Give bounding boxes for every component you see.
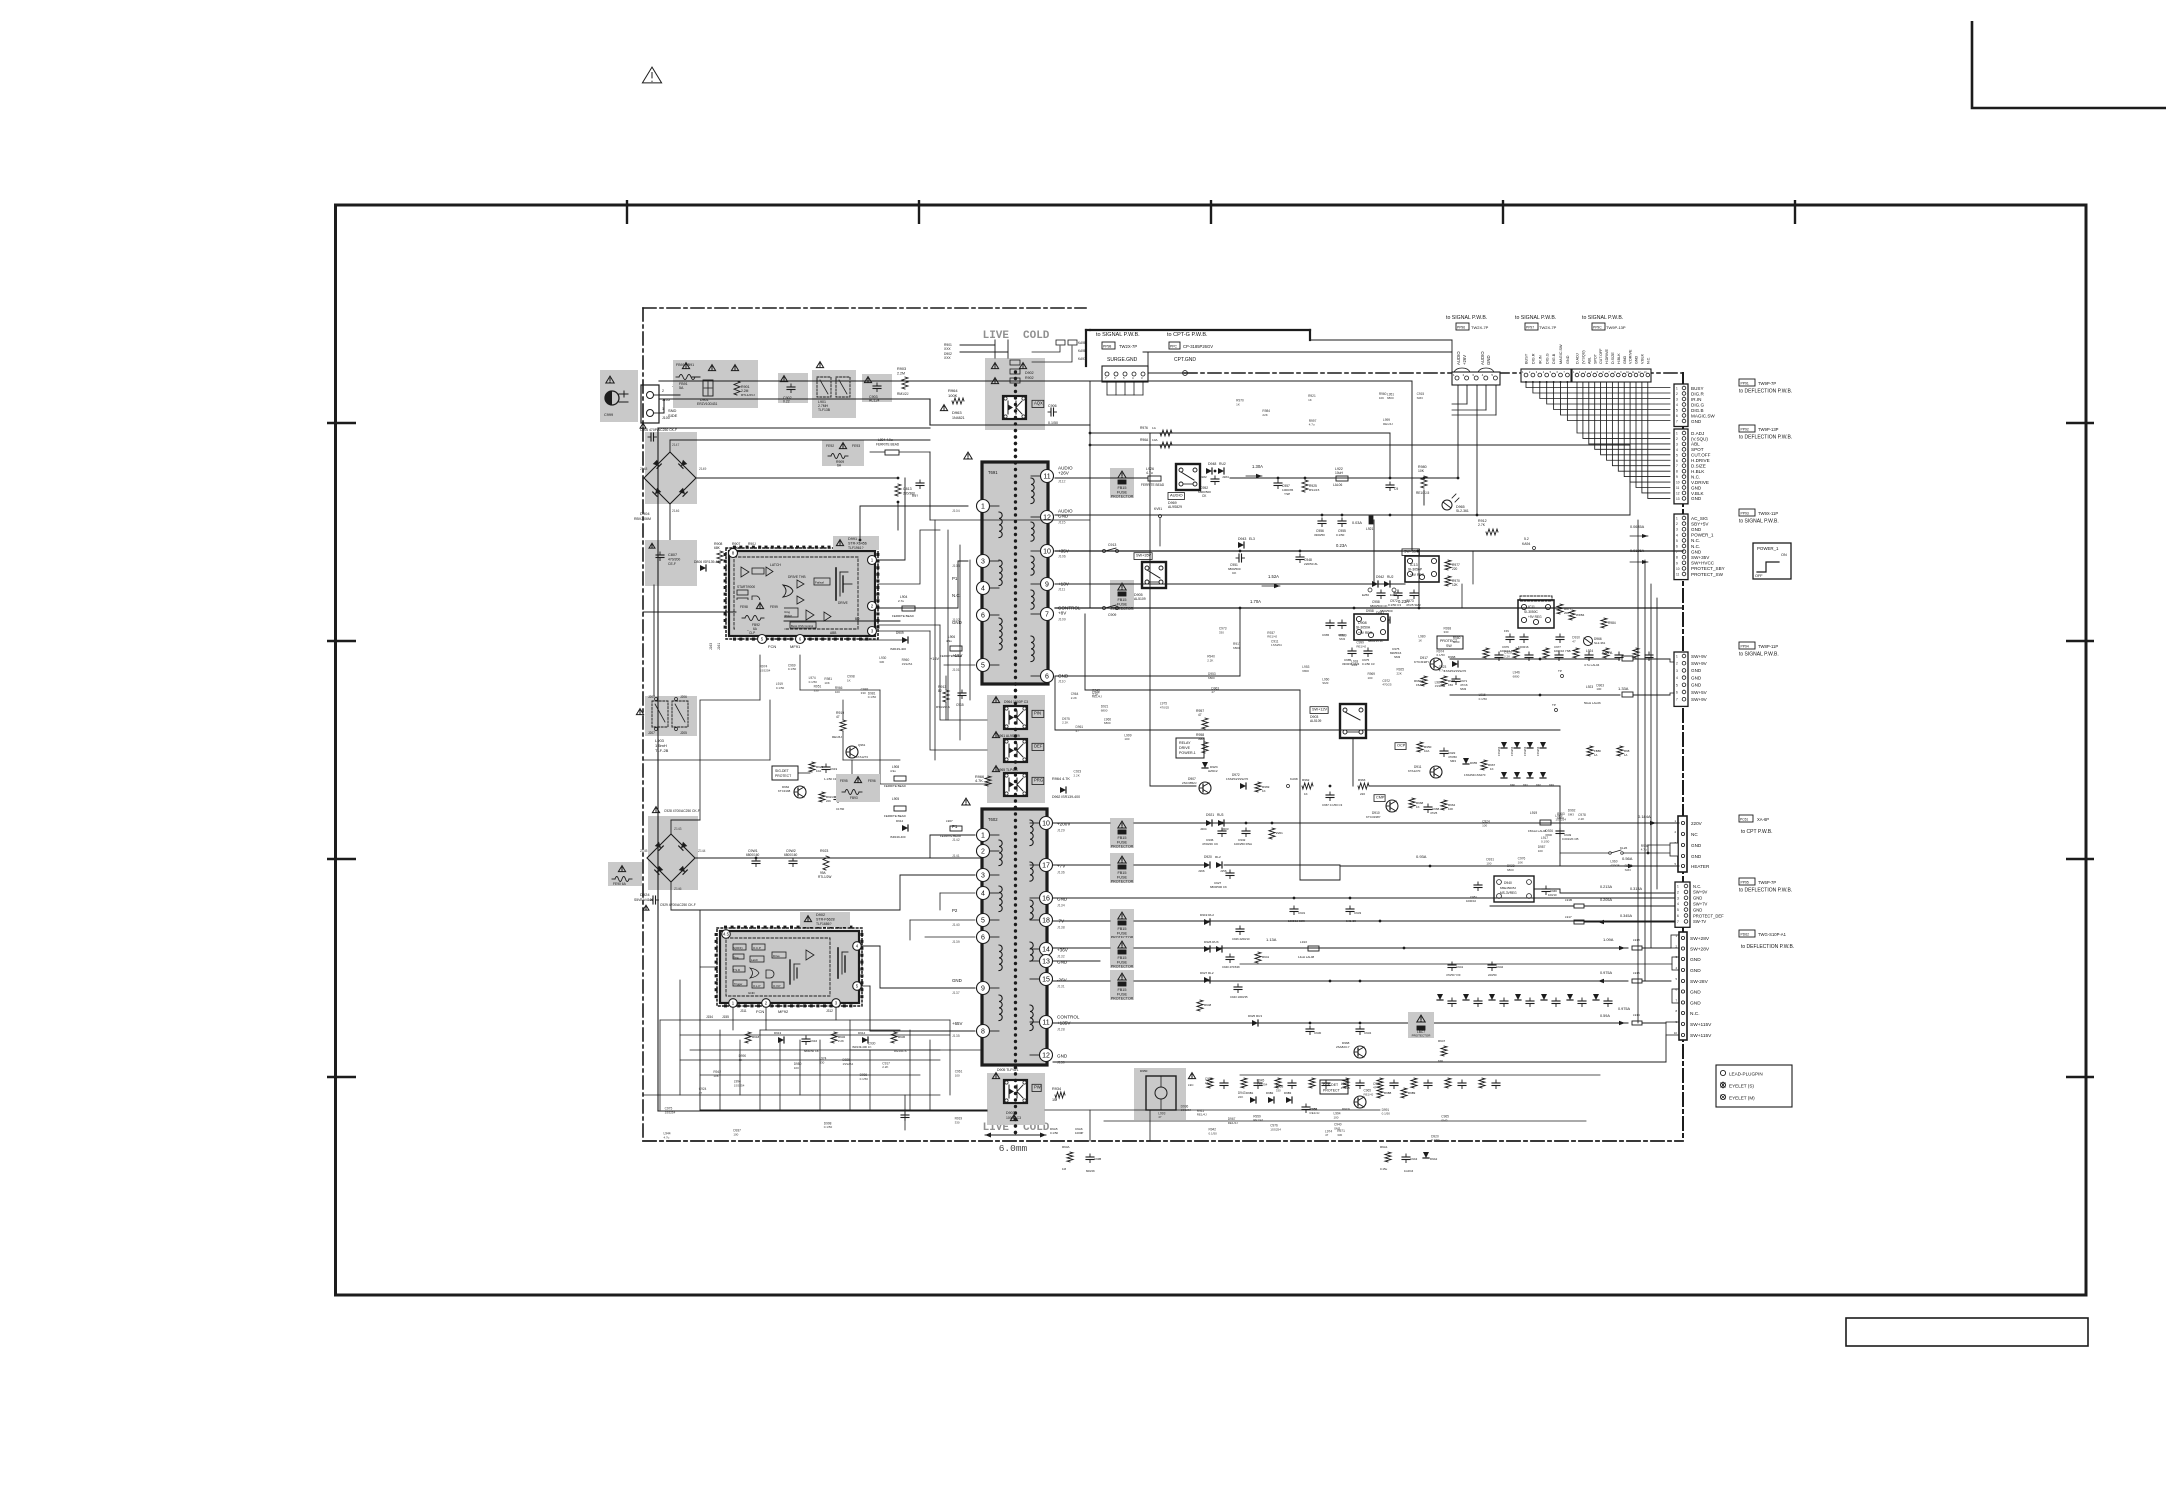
wire fe98 row — [643, 611, 736, 613]
svg-text:GND: GND — [1691, 485, 1702, 490]
svg-text:N.C.: N.C. — [1691, 544, 1700, 549]
svg-text:D958: D958 — [1366, 609, 1374, 613]
svg-text:to DEFLECTION P.W.B.: to DEFLECTION P.W.B. — [1739, 888, 1792, 894]
svg-text:GND: GND — [1690, 1001, 1701, 1007]
svg-text:1: 1 — [1676, 432, 1678, 436]
svg-text:10: 10 — [1676, 481, 1680, 485]
svg-text:D924: D924 — [640, 892, 650, 897]
svg-text:OFF: OFF — [1755, 574, 1763, 578]
svg-text:SI-3056P: SI-3056P — [1408, 568, 1423, 572]
svg-text:R984: R984 — [1608, 621, 1616, 625]
svg-text:CMP: CMP — [1376, 796, 1385, 800]
svg-text:10K: 10K — [1448, 807, 1453, 811]
svg-text:GND: GND — [1691, 683, 1702, 688]
svg-text:0.1/50: 0.1/50 — [776, 686, 785, 690]
svg-text:L923: L923 — [1586, 685, 1593, 689]
svg-text:GND: GND — [1691, 419, 1702, 424]
svg-text:PP91: PP91 — [1741, 382, 1749, 386]
svg-text:2: 2 — [1676, 437, 1678, 441]
svg-text:J134: J134 — [1057, 904, 1065, 908]
svg-text:SW+115V: SW+115V — [1690, 1033, 1712, 1039]
svg-text:PROTECT: PROTECT — [775, 774, 791, 778]
svg-text:11: 11 — [1676, 573, 1680, 577]
svg-text:PROTECT_SW: PROTECT_SW — [1691, 572, 1724, 577]
wire gnd lower rows — [1053, 1061, 1666, 1063]
svg-text:L91B: L91B — [1565, 898, 1572, 902]
svg-text:KTA1270: KTA1270 — [1408, 769, 1421, 773]
svg-text:SL2-361: SL2-361 — [1594, 641, 1606, 645]
svg-text:CE-F: CE-F — [668, 562, 676, 566]
svg-text:1K: 1K — [868, 1045, 872, 1049]
svg-text:FB15: FB15 — [1117, 871, 1126, 875]
svg-text:R936: R936 — [898, 1035, 906, 1039]
svg-text:1000/16 YSB: 1000/16 YSB — [1554, 649, 1571, 653]
caps under D908 — [1351, 648, 1353, 651]
svg-text:2: 2 — [981, 849, 985, 856]
svg-text:100: 100 — [1367, 676, 1372, 680]
svg-text:to CPT P.W.B.: to CPT P.W.B. — [1741, 829, 1773, 835]
svg-text:FERRITE BEAD: FERRITE BEAD — [884, 814, 907, 818]
svg-text:RE1/4J: RE1/4J — [1267, 635, 1277, 639]
svg-text:C930: C930 — [1314, 1031, 1322, 1035]
svg-text:D912: D912 — [896, 819, 904, 823]
svg-text:2SC3852J: 2SC3852J — [1182, 781, 1197, 785]
svg-text:TLF-2B: TLF-2B — [655, 748, 669, 753]
svg-text:ABL: ABL — [1587, 357, 1591, 364]
svg-text:SM3: SM3 — [1568, 812, 1575, 816]
svg-text:KTC3198Y: KTC3198Y — [1414, 660, 1429, 664]
svg-text:J161: J161 — [717, 643, 721, 650]
svg-text:CPT.GND: CPT.GND — [1174, 357, 1196, 363]
svg-text:RM1/2J: RM1/2J — [897, 392, 909, 396]
svg-text:L914: L914 — [1633, 1013, 1640, 1017]
svg-text:L924: L924 — [1586, 649, 1593, 653]
svg-text:6800: 6800 — [1302, 669, 1309, 673]
regulator IC11 — [1518, 600, 1554, 628]
svg-text:C928 4700/AC250 CK-F: C928 4700/AC250 CK-F — [664, 809, 700, 813]
wire lower bridge rail — [695, 857, 980, 859]
svg-text:GND: GND — [1057, 960, 1068, 965]
svg-text:4: 4 — [1676, 448, 1678, 452]
svg-text:3: 3 — [981, 873, 985, 880]
svg-text:R964 4.7K: R964 4.7K — [1052, 777, 1070, 781]
svg-text:KTC3198Y: KTC3198Y — [1366, 815, 1381, 819]
wire t602 left drops — [930, 835, 975, 858]
svg-text:47: 47 — [1373, 1086, 1377, 1090]
svg-text:D93: D93 — [1549, 783, 1554, 787]
svg-text:RL2: RL2 — [1215, 855, 1221, 859]
svg-text:D926 RU3: D926 RU3 — [1204, 940, 1219, 944]
svg-text:AUDIO: AUDIO — [1170, 493, 1183, 498]
svg-text:0.1/50: 0.1/50 — [1336, 533, 1345, 537]
svg-text:2.7u: 2.7u — [898, 599, 904, 603]
svg-text:D963: D963 — [952, 410, 962, 415]
svg-text:GND: GND — [1623, 355, 1627, 364]
svg-text:6800: 6800 — [1387, 396, 1394, 400]
svg-text:GND: GND — [1691, 843, 1702, 848]
svg-text:1SS254: 1SS254 — [902, 662, 913, 666]
svg-text:GND: GND — [1691, 668, 1702, 673]
svg-text:D.SIZE: D.SIZE — [1611, 352, 1615, 364]
AC plug pad — [600, 370, 638, 422]
svg-text:J205: J205 — [680, 731, 687, 735]
hot/cold barrier dash-dot bottom edge — [643, 1140, 1683, 1142]
wire sw9v rows — [1450, 658, 1620, 660]
parts under ic2 — [745, 1032, 751, 1043]
wire sig det — [700, 945, 717, 947]
connector PP95 — [1675, 882, 1690, 927]
optocoupler pad upper — [985, 358, 1045, 430]
cap C9 audio — [1389, 482, 1391, 485]
svg-text:6800: 6800 — [1208, 676, 1215, 680]
svg-text:J129: J129 — [1057, 829, 1065, 833]
svg-text:TLF1961?: TLF1961? — [848, 546, 864, 550]
cap C813 — [897, 477, 900, 480]
svg-text:330: 330 — [1443, 630, 1448, 634]
svg-text:4.7u LAL04: 4.7u LAL04 — [1584, 663, 1600, 667]
svg-text:J136: J136 — [1057, 871, 1065, 875]
FB11 fuse protector — [1110, 468, 1134, 498]
svg-text:10: 10 — [1042, 821, 1050, 828]
svg-text:PP9C: PP9C — [1593, 326, 1602, 330]
svg-text:11: 11 — [1043, 474, 1050, 481]
svg-text:6800/500 CK: 6800/500 CK — [1370, 604, 1388, 608]
svg-text:330: 330 — [1337, 1133, 1342, 1137]
svg-text:1.09A: 1.09A — [1603, 937, 1614, 942]
relay D903 SW+12V — [1340, 704, 1366, 738]
bridge wires upper — [669, 440, 671, 452]
svg-text:C926 2200/10: C926 2200/10 — [1232, 937, 1250, 941]
svg-text:D.ADJ: D.ADJ — [1691, 431, 1704, 436]
wire bottom area — [700, 1109, 987, 1111]
svg-text:J115: J115 — [1058, 521, 1066, 525]
svg-text:3: 3 — [1676, 442, 1678, 446]
warning row pad1 — [682, 363, 689, 369]
svg-text:D92: D92 — [1536, 783, 1541, 787]
hot/cold barrier dash-dot top edge — [643, 307, 1086, 309]
svg-text:CP-3185P26GV: CP-3185P26GV — [1183, 344, 1213, 349]
svg-text:TW2X-7P: TW2X-7P — [1471, 325, 1489, 330]
svg-text:8: 8 — [981, 1029, 985, 1036]
svg-text:FERRITE BEAD: FERRITE BEAD — [876, 443, 900, 447]
svg-text:TW8P-11P: TW8P-11P — [1758, 644, 1778, 649]
svg-text:150: 150 — [1448, 683, 1453, 687]
svg-text:1K: 1K — [1418, 638, 1422, 642]
svg-text:PROTECTOR: PROTECTOR — [1412, 1034, 1432, 1038]
svg-text:D.SIZE: D.SIZE — [1691, 464, 1706, 469]
svg-text:C9A3: C9A3 — [1410, 1157, 1418, 1161]
svg-text:to DEFLECTION P.W.B.: to DEFLECTION P.W.B. — [1739, 435, 1792, 441]
svg-text:FB15: FB15 — [1117, 486, 1126, 490]
svg-text:D.ADJ: D.ADJ — [1576, 353, 1580, 364]
svg-text:J138: J138 — [1057, 926, 1065, 930]
svg-text:D925 RU3: D925 RU3 — [1248, 1014, 1262, 1018]
svg-text:470/25: 470/25 — [1160, 705, 1170, 709]
svg-text:3: 3 — [1676, 669, 1678, 673]
svg-text:D903: D903 — [1006, 1111, 1015, 1115]
svg-text:2: 2 — [1676, 392, 1678, 396]
FB protector m7v — [1110, 909, 1134, 939]
svg-text:PP95: PP95 — [1741, 881, 1749, 885]
svg-text:200: 200 — [1564, 611, 1569, 615]
cap C811 — [769, 560, 771, 563]
svg-text:5A: 5A — [679, 386, 684, 390]
svg-text:100: 100 — [733, 1133, 738, 1137]
svg-text:J104: J104 — [952, 509, 960, 513]
wire surge bus — [1085, 330, 1087, 366]
svg-text:1.33A: 1.33A — [1618, 686, 1629, 691]
svg-text:5.2: 5.2 — [1524, 537, 1529, 541]
wire ic2 connections — [700, 966, 717, 968]
transistor D910 CMP — [1374, 795, 1385, 802]
svg-text:62K: 62K — [1438, 1059, 1443, 1063]
svg-text:DRIVE: DRIVE — [838, 601, 848, 605]
svg-text:L921: L921 — [1366, 527, 1374, 531]
caps at IC13 — [1397, 590, 1399, 593]
svg-text:RE1/4J: RE1/4J — [1228, 1121, 1238, 1125]
svg-text:SPOT: SPOT — [1593, 353, 1597, 364]
svg-text:YSP: YSP — [1284, 492, 1290, 496]
wire ic1 to t691 p1 — [878, 561, 968, 608]
svg-text:SPOT: SPOT — [1691, 447, 1704, 452]
svg-text:+8V: +8V — [1058, 611, 1067, 616]
svg-text:6800: 6800 — [1104, 721, 1111, 725]
svg-text:SW+9V: SW+9V — [1691, 654, 1708, 659]
svg-text:47: 47 — [1158, 1115, 1162, 1119]
svg-text:J106: J106 — [1058, 555, 1066, 559]
wire AC line extension to right — [1090, 380, 1412, 382]
svg-text:3: 3 — [1676, 528, 1678, 532]
svg-text:FE90 6A: FE90 6A — [613, 882, 627, 886]
svg-text:V.BLK: V.BLK — [1691, 491, 1705, 496]
svg-text:C93B: C93B — [1094, 1157, 1101, 1161]
svg-text:D9B3: D9B3 — [1284, 1091, 1292, 1095]
svg-text:1G0/16: 1G0/16 — [1404, 1169, 1414, 1173]
svg-text:2146: 2146 — [672, 509, 680, 513]
svg-text:ERZV10D431: ERZV10D431 — [697, 402, 718, 406]
wire pp95 rows — [1490, 905, 1574, 907]
svg-text:220: 220 — [1360, 792, 1365, 796]
optocoupler pad lower — [987, 1073, 1045, 1125]
svg-text:10A: 10A — [1152, 438, 1158, 442]
svg-text:100: 100 — [1124, 737, 1129, 741]
svg-text:TLF13B: TLF13B — [818, 408, 831, 412]
svg-text:11: 11 — [1042, 1020, 1049, 1027]
svg-text:1K: 1K — [847, 679, 851, 683]
svg-text:2147: 2147 — [672, 443, 680, 447]
opto PB91 (PIN) — [1004, 706, 1027, 729]
svg-text:C909: C909 — [1108, 613, 1116, 617]
wire 135v rail — [1053, 1022, 1628, 1024]
wire lower beads — [880, 789, 894, 791]
svg-text:GND: GND — [748, 991, 756, 995]
svg-text:C943 1000/35: C943 1000/35 — [1230, 995, 1248, 999]
svg-text:SW+HVCC: SW+HVCC — [1691, 561, 1715, 566]
svg-text:10: 10 — [1676, 567, 1680, 571]
svg-text:LAL06: LAL06 — [1333, 483, 1342, 487]
svg-text:12: 12 — [1676, 491, 1680, 495]
AC wires — [659, 394, 680, 396]
svg-text:RU2: RU2 — [1387, 575, 1394, 579]
regulator D908 — [1354, 614, 1388, 640]
svg-text:100: 100 — [955, 1073, 960, 1077]
svg-text:-26V: -26V — [1057, 978, 1068, 983]
svg-text:LIVE: LIVE — [983, 330, 1010, 342]
svg-text:6800/160: 6800/160 — [746, 853, 760, 857]
cap pad 3 — [862, 374, 892, 402]
connector PP97 label — [1525, 323, 1538, 330]
wire heater — [1340, 865, 1679, 867]
sig det protect cluster — [772, 766, 798, 780]
svg-text:1M: 1M — [1062, 1167, 1067, 1171]
diode D809 — [810, 565, 816, 571]
svg-text:PPC: PPC — [1170, 345, 1178, 349]
svg-text:1SS254: 1SS254 — [1271, 643, 1282, 647]
connector PP93 — [1674, 514, 1688, 580]
svg-text:PW: PW — [1034, 1085, 1041, 1090]
svg-text:C906: C906 — [1048, 404, 1057, 408]
svg-text:PP97: PP97 — [1526, 326, 1534, 330]
svg-text:R90J: R90J — [748, 542, 756, 546]
svg-text:47/25: 47/25 — [1430, 811, 1438, 815]
xray box — [1134, 1068, 1186, 1120]
warning pad2 — [780, 376, 787, 382]
svg-text:C940 470/63K: C940 470/63K — [1222, 965, 1240, 969]
gray box FE95 FE96 — [836, 774, 880, 802]
svg-text:J103: J103 — [952, 564, 960, 568]
svg-text:FERRITE BEAD: FERRITE BEAD — [892, 614, 915, 618]
svg-text:DIG.B: DIG.B — [1552, 353, 1556, 364]
title box (bottom right) — [1846, 1318, 2088, 1346]
svg-text:C913: C913 — [1108, 543, 1116, 547]
svg-text:Burst OSS Control: Burst OSS Control — [791, 624, 814, 628]
chassis enclosure line left — [657, 428, 659, 1111]
svg-text:470/50 YXF: 470/50 YXF — [1446, 973, 1461, 977]
svg-text:Reg.: Reg. — [733, 956, 739, 960]
wire gnd rail 691 — [1055, 675, 1240, 677]
svg-text:KTA1273: KTA1273 — [856, 755, 868, 759]
R960s at protect — [1421, 676, 1427, 686]
svg-text:H.DRIVE: H.DRIVE — [1605, 349, 1609, 364]
svg-text:AL9S829: AL9S829 — [1168, 505, 1182, 509]
svg-text:12: 12 — [1042, 1053, 1050, 1060]
IC D902 STR-F6628 (switching regulator MF92) — [717, 928, 862, 1006]
svg-text:6800: 6800 — [1513, 674, 1520, 678]
svg-text:GND: GND — [1057, 897, 1068, 902]
wire left long verticals — [653, 585, 655, 696]
svg-text:N.C.: N.C. — [1691, 474, 1700, 479]
svg-text:22K: 22K — [1262, 413, 1267, 417]
svg-text:GND: GND — [1058, 514, 1069, 519]
svg-text:D913: D913 — [774, 1031, 782, 1035]
svg-text:0.59A: 0.59A — [1600, 1014, 1610, 1018]
R980 R981 verticals — [1587, 746, 1593, 756]
svg-text:TW9X-11P: TW9X-11P — [1758, 511, 1778, 516]
svg-text:PD62: PD62 — [1741, 933, 1750, 937]
cap C902 — [790, 384, 792, 387]
svg-text:8: 8 — [1676, 556, 1678, 560]
svg-text:0.1/50: 0.1/50 — [809, 680, 818, 684]
svg-text:0.1/50: 0.1/50 — [1479, 697, 1488, 701]
svg-text:H.BLK: H.BLK — [1617, 353, 1621, 364]
svg-text:0.345A: 0.345A — [1620, 914, 1633, 918]
svg-text:5: 5 — [1676, 539, 1678, 543]
svg-text:J110: J110 — [1058, 680, 1066, 684]
svg-text:10uH: 10uH — [1335, 471, 1344, 475]
svg-text:FCN: FCN — [756, 1009, 764, 1014]
svg-text:FB93: FB93 — [850, 796, 858, 800]
connector PP98 label — [1102, 342, 1115, 349]
svg-text:FE98: FE98 — [740, 605, 748, 609]
wire 7V rail — [1053, 864, 1110, 866]
svg-text:0.313A: 0.313A — [1630, 887, 1643, 891]
wire long verticals right — [1089, 381, 1091, 608]
svg-text:+9V REG: +9V REG — [1528, 615, 1542, 619]
svg-text:GND: GND — [952, 978, 962, 983]
svg-text:2.2K: 2.2K — [838, 1039, 844, 1043]
svg-text:1.13A: 1.13A — [1266, 937, 1277, 942]
svg-text:D991: D991 — [848, 537, 857, 541]
svg-text:L919: L919 — [1530, 811, 1537, 815]
svg-text:4: 4 — [981, 891, 985, 898]
diode D927 — [1204, 977, 1210, 983]
svg-text:SURGE.GND: SURGE.GND — [1107, 357, 1138, 363]
svg-text:1K: 1K — [1262, 789, 1266, 793]
svg-text:KA94: KA94 — [1522, 542, 1530, 546]
svg-text:FE93: FE93 — [852, 444, 860, 448]
svg-text:J132: J132 — [1057, 955, 1065, 959]
svg-text:5: 5 — [1676, 453, 1678, 457]
svg-text:0.213A: 0.213A — [1600, 885, 1613, 889]
svg-text:LEAD-PLUGPIN: LEAD-PLUGPIN — [1729, 1072, 1763, 1077]
svg-text:J312: J312 — [826, 1009, 833, 1013]
svg-text:CUT.OFF: CUT.OFF — [1691, 453, 1711, 458]
svg-text:J184: J184 — [1222, 475, 1229, 479]
svg-text:R976: R976 — [1140, 426, 1148, 430]
svg-text:220/50: 220/50 — [1488, 973, 1497, 977]
svg-text:15A: 15A — [1416, 683, 1421, 687]
svg-text:SM3: SM3 — [1460, 687, 1467, 691]
svg-text:AL5109: AL5109 — [1134, 597, 1146, 601]
svg-text:100: 100 — [1333, 1115, 1338, 1119]
svg-text:J154: J154 — [706, 1015, 713, 1019]
FB protector +7V — [1110, 853, 1134, 883]
svg-text:N.C.: N.C. — [1646, 357, 1650, 364]
hot/cold barrier dash-dot left edge — [642, 308, 644, 1141]
svg-text:E250: E250 — [1362, 593, 1369, 597]
svg-text:to SIGNAL P.W.B.: to SIGNAL P.W.B. — [1739, 652, 1779, 658]
connector PP92 — [1674, 429, 1688, 504]
bridge rectifier D904 — [644, 452, 696, 504]
wire 35V rail — [1055, 550, 1683, 552]
wire gnd2 rail — [1053, 897, 1200, 899]
svg-text:D914: D914 — [858, 1031, 866, 1035]
svg-text:COLD: COLD — [1023, 330, 1050, 342]
svg-text:Latch: Latch — [751, 958, 758, 962]
svg-text:1SS254: 1SS254 — [1510, 746, 1514, 756]
svg-text:D921: D921 — [1206, 813, 1214, 817]
svg-text:FE92: FE92 — [826, 444, 834, 448]
svg-text:100/250 RNA: 100/250 RNA — [1234, 842, 1252, 846]
svg-text:2: 2 — [1677, 890, 1679, 894]
svg-text:to SIGNAL P.W.B.: to SIGNAL P.W.B. — [1582, 315, 1623, 321]
svg-text:D90: D90 — [1510, 783, 1515, 787]
svg-text:SW+28V: SW+28V — [1690, 947, 1710, 953]
svg-text:10K: 10K — [1418, 469, 1425, 473]
svg-text:6: 6 — [1677, 914, 1679, 918]
svg-text:PP96: PP96 — [1457, 326, 1465, 330]
svg-text:D940: D940 — [1504, 881, 1512, 885]
